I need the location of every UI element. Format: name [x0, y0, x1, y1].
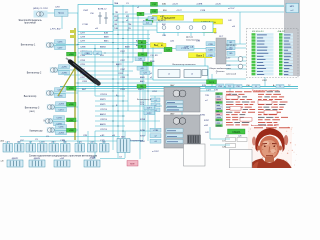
svg-text:Вентилятор 3: Вентилятор 3 [25, 108, 40, 110]
wire [78, 38, 150, 40]
label С289 [120, 89, 126, 91]
labels Компрессор [56, 125, 67, 135]
bottom-left small boxes [226, 136, 248, 148]
svg-text:С297 В: С297 В [100, 129, 108, 131]
sensor B2 [238, 64, 243, 69]
label х3 [126, 20, 129, 22]
svg-text:-С293: -С293 [58, 104, 64, 106]
relay box K0 [55, 9, 69, 16]
wire [113, 13, 152, 15]
svg-text:КУВВ: КУВВ [140, 130, 146, 132]
text Вентилятор отопителя [173, 64, 197, 66]
green label В9 [138, 45, 146, 48]
svg-text:-С2В6: -С2В6 [153, 130, 158, 132]
labels Вентилятор 1 [55, 40, 66, 50]
svg-text:Выкл 2: Выкл 2 [196, 55, 204, 58]
olive diagonal harness [58, 68, 75, 96]
J3 left pins [206, 42, 215, 57]
svg-text:(ЭБУ): (ЭБУ) [29, 111, 35, 113]
A1 label КУВ [202, 85, 212, 91]
label С7В6 [80, 55, 86, 57]
label В [116, 95, 118, 97]
probe tip [66, 58, 71, 62]
label х2В [228, 94, 232, 96]
motor Вентилятор 1 [46, 42, 55, 48]
svg-text:С2ВВ: С2ВВ [85, 53, 91, 55]
svg-text:С287: С287 [80, 77, 86, 79]
green col lbl 3 [137, 85, 146, 89]
svg-text:Датчик: Датчик [186, 37, 193, 39]
wire [78, 42, 148, 44]
svg-text:х-МР: х-МР [184, 47, 189, 49]
green label ПВ [137, 12, 144, 15]
wire [78, 52, 162, 54]
svg-text:С283: С283 [118, 73, 124, 75]
connector С126 [88, 142, 98, 152]
probe body [70, 62, 96, 83]
svg-text:СХЕМА: СХЕМА [232, 131, 241, 134]
label above K2 [158, 20, 167, 22]
text ЭБУ sub [29, 111, 35, 113]
wire [55, 129, 79, 131]
green label СХЕМА [228, 129, 246, 134]
olive top labels [70, 30, 76, 38]
wire [150, 95, 182, 97]
green label АТ [146, 19, 153, 22]
dashed block border [247, 29, 299, 78]
label С3 [62, 140, 66, 142]
label х-ВЗ [160, 16, 165, 18]
label С299 [80, 64, 86, 66]
wire [226, 64, 246, 66]
svg-text:х-С: х-С [290, 10, 294, 12]
svg-text:-С296: -С296 [61, 73, 67, 75]
text Вентилятор [24, 96, 37, 98]
label х-С207 [152, 151, 160, 153]
wire [94, 131, 96, 159]
label а-РУ5_В02 [50, 29, 61, 31]
label АМР6 [100, 123, 107, 126]
wire [113, 4, 284, 6]
J3 right pins [227, 40, 235, 55]
fuse label 40А [162, 2, 166, 5]
text МР2 [44, 121, 49, 123]
svg-text:х2В7: х2В7 [69, 120, 73, 122]
svg-text:А9: А9 [141, 41, 143, 44]
svg-text:х2В5: х2В5 [69, 88, 73, 90]
green label А9 [138, 40, 146, 43]
label Т [216, 73, 218, 75]
svg-text:ЭБУ: ЭБУ [170, 113, 175, 115]
svg-text:АМВ: АМВ [104, 36, 109, 39]
wire [226, 68, 246, 70]
wire [142, 26, 144, 141]
label АМВ9 [136, 44, 143, 47]
wire [159, 18, 161, 30]
svg-text:С297 В: С297 В [100, 109, 108, 111]
wire [75, 82, 215, 84]
svg-text:С12В: С12В [200, 10, 206, 12]
svg-text:С287: С287 [120, 60, 126, 62]
svg-text:С299: С299 [80, 41, 86, 43]
wire [77, 13, 79, 143]
svg-text:С292: С292 [152, 91, 158, 93]
label С297 [80, 33, 86, 35]
green harness label х2В6 [67, 102, 77, 106]
connector strip B [279, 33, 293, 75]
svg-text:АМВ4: АМВ4 [100, 46, 107, 49]
wire [78, 56, 152, 58]
wire [64, 74, 128, 76]
svg-text:х2В8: х2В8 [69, 130, 73, 132]
red caption above photo [251, 124, 277, 127]
wire [53, 141, 55, 144]
label х-ВЗ [100, 135, 105, 137]
wire [226, 60, 246, 62]
label С207 [262, 80, 268, 82]
connector (А)МР2 [7, 157, 23, 167]
label С42 [228, 20, 233, 22]
relay box U2 [78, 5, 113, 32]
label САТ [114, 19, 119, 22]
motor Вентилятор 2 [50, 67, 59, 73]
yellow label ТЕХШУНТ [153, 15, 184, 20]
edge label A11 [1, 161, 5, 163]
wire [124, 131, 126, 158]
wire [112, 0, 114, 150]
label КМРЗ [138, 89, 144, 91]
svg-text:С56: С56 [236, 86, 239, 88]
green harness label х2В8 [67, 128, 77, 132]
portrait photo [248, 127, 297, 168]
svg-text:С7 В8: С7 В8 [82, 24, 89, 26]
svg-text:КУВ: КУВ [202, 85, 207, 87]
label х2 [137, 7, 140, 9]
J3 header [219, 36, 224, 38]
label С292 [152, 91, 158, 93]
svg-text:АМР2: АМР2 [116, 63, 123, 66]
wire [91, 141, 93, 144]
green harness label х2В5 [67, 86, 77, 90]
label х-В [232, 26, 236, 28]
svg-text:хВЗ: хВЗ [151, 18, 154, 20]
green label С24 [164, 47, 172, 51]
svg-text:Вентилятор: Вентилятор [24, 96, 37, 98]
label ВЗ [126, 16, 129, 18]
svg-text:ПВА: ПВА [114, 2, 119, 5]
label х-В2 [204, 125, 209, 127]
svg-text:С297: С297 [80, 33, 86, 35]
svg-text:В8: В8 [140, 86, 142, 88]
label АМВ [125, 46, 130, 49]
label -С123 [172, 3, 179, 5]
label -С126 [215, 3, 222, 5]
svg-text:х-С107: х-С107 [228, 8, 235, 10]
label х-С2 [228, 132, 233, 134]
svg-text:С2В: С2В [162, 35, 167, 37]
svg-text:-С294: -С294 [58, 133, 64, 135]
label С2 [214, 33, 217, 35]
label ТВ [128, 28, 131, 30]
svg-text:х-ВЗ: х-ВЗ [100, 135, 105, 137]
label ХВТ [114, 16, 119, 18]
svg-text:Кондиционер В: Кондиционер В [137, 99, 152, 101]
label (МУФ) С292 [33, 7, 49, 10]
svg-text:С-УЗО: С-УЗО [39, 142, 45, 144]
yellow label Выкл 2 [189, 53, 213, 58]
connector х-В [26, 142, 36, 152]
svg-text:-С127: -С127 [176, 10, 183, 12]
svg-text:(МУФ) С1 С292: (МУФ) С1 С292 [33, 7, 49, 10]
label -С4НВ [196, 3, 203, 5]
connector МР1 [286, 3, 299, 13]
cyan col lbl 2 [137, 67, 147, 71]
svg-text:ЭБУ: ЭБУ [170, 85, 175, 87]
labels МР2 [54, 116, 65, 126]
svg-text:АМВ: АМВ [140, 76, 145, 79]
svg-text:А10: А10 [1, 140, 4, 143]
svg-text:АЛО: АЛО [51, 141, 56, 144]
wire [75, 90, 215, 92]
svg-text:Общая мобильность: Общая мобильность [209, 68, 232, 70]
heater motor M1 [36, 11, 45, 17]
svg-text:С299: С299 [80, 64, 86, 66]
heater M1 highlight [34, 11, 48, 18]
svg-text:х-С: х-С [205, 100, 209, 102]
bus bar [60, 87, 298, 89]
sensor labels [226, 45, 237, 76]
svg-text:проточный: проточный [24, 22, 36, 25]
U2 internals [82, 8, 108, 31]
svg-text:С31, ВЗ: С31, ВЗ [150, 55, 158, 57]
label АМВ [140, 76, 145, 79]
wire [117, 14, 119, 150]
wire [113, 25, 160, 27]
wire [127, 14, 129, 111]
grey margin strip [284, 0, 300, 76]
bus bar labels [234, 85, 284, 89]
svg-text:хС2: хС2 [146, 23, 149, 25]
wire [113, 5, 284, 7]
label х-В2 [170, 41, 175, 43]
label АЗВ9 [136, 40, 142, 43]
green harness label х2В7 [67, 118, 77, 122]
wire [122, 5, 124, 150]
svg-text:В6: В6 [146, 64, 148, 66]
wire [44, 12, 78, 14]
relay K2 stubs [164, 33, 204, 37]
wire [103, 141, 105, 144]
svg-text:С292 В: С292 В [100, 94, 108, 96]
label С12В [200, 10, 206, 12]
label С292 [55, 7, 61, 9]
svg-text:С2ТТ: С2ТТ [147, 108, 153, 110]
svg-text:С207: С207 [262, 80, 268, 82]
svg-text:Прогр: Прогр [58, 13, 65, 15]
label С7В [196, 41, 201, 43]
label С287 [120, 51, 126, 53]
ECU block A1 [164, 87, 200, 112]
svg-text:МР1: МР1 [290, 6, 295, 8]
label РС4 [140, 104, 145, 106]
label Т4В [114, 28, 118, 30]
ECU block A2 [164, 115, 200, 148]
label С3 [126, 3, 129, 5]
svg-text:С289: С289 [120, 89, 126, 91]
label ВНТ [82, 89, 87, 91]
label ПМ [128, 24, 131, 26]
svg-text:С26: С26 [238, 136, 241, 138]
A1 pin rows [166, 101, 183, 111]
svg-text:(Т)ЗВ: (Т)ЗВ [90, 158, 96, 160]
wire [78, 70, 133, 72]
svg-text:(А)МР2: (А)МР2 [12, 157, 18, 160]
label ПВ [115, 12, 118, 14]
label Кондиционер [130, 140, 144, 142]
sensor B1 [238, 57, 243, 62]
svg-text:КМРЗ: КМРЗ [138, 89, 144, 91]
label КМР2 [138, 60, 144, 62]
strip headers [252, 30, 286, 33]
label х2В [100, 55, 104, 57]
wire [62, 65, 155, 67]
svg-text:С7В: С7В [196, 41, 201, 43]
wire [205, 87, 226, 89]
A2 left pins [150, 128, 161, 143]
motor Вентилятор 3 [47, 104, 56, 110]
label С56 bar [246, 85, 251, 87]
wire [7, 141, 9, 144]
label х2 [150, 77, 153, 79]
cyan top lbl 1 [148, 17, 157, 21]
label АМС [104, 40, 109, 43]
label В16 [163, 10, 168, 12]
cyan col lbl 1 [135, 57, 145, 61]
wire [20, 136, 120, 138]
svg-text:х-С147: х-С147 [226, 49, 233, 51]
svg-text:Автомобильные схемы В2: Автомобильные схемы В2 [251, 124, 277, 127]
svg-text:кабельный: кабельный [226, 73, 236, 76]
svg-text:Схема подключения кондиционера: Схема подключения кондиционера с приточн… [29, 155, 98, 157]
label ПВА [114, 2, 119, 5]
pink connector МУФ [127, 161, 138, 167]
svg-text:С287 В: С287 В [100, 119, 108, 121]
svg-text:КМРЗ: КМРЗ [100, 99, 106, 101]
wire [181, 96, 183, 143]
label КУВ7 [204, 120, 210, 122]
label С287 [80, 77, 86, 79]
svg-text:х-ВЗ: х-ВЗ [160, 16, 165, 18]
svg-text:С298: С298 [80, 60, 86, 62]
svg-text:АМЗ: АМЗ [140, 80, 145, 83]
wire [95, 130, 160, 132]
svg-text:(А)МР4: (А)МР4 [34, 157, 40, 160]
svg-text:х-С207: х-С207 [152, 151, 160, 153]
svg-text:С288: С288 [120, 77, 126, 79]
wire [147, 30, 149, 141]
svg-text:х2В: х2В [100, 55, 104, 57]
label С297 В [100, 109, 108, 111]
label С298 [80, 60, 86, 62]
label АМВ4 [100, 46, 107, 49]
label С283 [118, 73, 124, 75]
label С31 ВЗ [150, 55, 158, 57]
label С2В [83, 135, 88, 137]
connector ВАУ tall [117, 136, 130, 153]
label (Т)ЗВ [90, 157, 96, 159]
svg-text:АМС: АМС [104, 40, 109, 43]
label С297 [80, 69, 86, 71]
yellow label Выкл a [203, 28, 217, 32]
wire [41, 141, 43, 144]
svg-text:С7В4 В: С7В4 В [80, 73, 88, 75]
label х-С2 [143, 20, 148, 22]
A1 motor symbol [173, 90, 186, 97]
fuse С32 b [151, 9, 158, 13]
white box S3 [230, 150, 253, 169]
label С292 В [100, 94, 108, 96]
text Вентилятор 2 [27, 73, 42, 75]
wire [204, 58, 206, 66]
wire [18, 141, 20, 144]
text Вентилятор 1 [21, 45, 36, 47]
text Кондиционер right [137, 99, 152, 104]
svg-text:КУВ8: КУВ8 [140, 119, 146, 121]
svg-text:Датчик дав.: Датчик дав. [226, 45, 237, 47]
connector (Т)ЗВ [84, 158, 100, 167]
svg-text:-С123: -С123 [172, 3, 179, 5]
wire [95, 110, 160, 112]
caption [29, 155, 98, 157]
wire [64, 141, 66, 144]
label МУФ [128, 160, 133, 163]
cyan mesh lbl a [82, 51, 92, 55]
label С283 [82, 81, 88, 83]
text Компрессор [30, 131, 44, 133]
wire [95, 120, 160, 122]
label С3 [119, 157, 123, 159]
label С297 В [100, 129, 108, 131]
cyan mesh lbl d [144, 111, 155, 115]
label Т2В [214, 90, 218, 92]
wire [117, 152, 119, 158]
svg-text:С297: С297 [80, 69, 86, 71]
cyan label С7В2а [176, 46, 194, 50]
label АМР4 [100, 113, 107, 116]
label С97 [20, 140, 25, 142]
label х-МР [184, 47, 189, 49]
cyan col lbl 3 [140, 71, 150, 75]
wire [264, 77, 266, 86]
label С7В4/О [80, 51, 88, 53]
wire [95, 115, 125, 117]
label С2 [125, 12, 129, 14]
label С287 В [100, 119, 108, 121]
svg-text:АЗВ: АЗВ [104, 32, 109, 35]
wire [78, 34, 150, 36]
wire [79, 141, 81, 144]
svg-text:Т2В: Т2В [214, 90, 218, 92]
svg-text:С4В: С4В [208, 49, 213, 51]
labels Вентилятор 2 [59, 65, 70, 75]
label -С127 [176, 10, 183, 12]
label С26 br [222, 147, 227, 149]
svg-text:В3: В3 [161, 45, 163, 47]
wire [226, 47, 246, 49]
label АМВ [104, 36, 109, 39]
svg-text:Компрессор: Компрессор [30, 131, 44, 133]
wire [78, 61, 133, 63]
